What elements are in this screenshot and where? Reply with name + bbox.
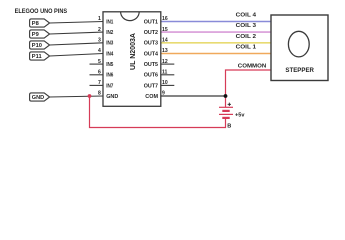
wire +5v net: junction up and right to stepper COMMON: [226, 70, 272, 96]
svg-text:OUT3: OUT3: [144, 41, 159, 47]
pin stub 6: [90, 74, 104, 76]
svg-text:IN1: IN1: [106, 19, 114, 25]
wire battery - to GND net: [90, 96, 226, 128]
wire OUT3 (pin 14) to stepper COIL 2: [161, 42, 271, 44]
svg-text:IN3: IN3: [106, 41, 114, 47]
svg-text:15: 15: [162, 27, 168, 33]
pin stub 11: [161, 74, 175, 76]
svg-text:14: 14: [162, 38, 168, 44]
net tag P9: [30, 30, 50, 38]
svg-text:GND: GND: [106, 94, 118, 100]
wire GND to pin 8: [50, 96, 103, 97]
svg-text:IN6: IN6: [106, 73, 114, 79]
wire junction down to battery +: [225, 96, 227, 107]
battery plate long 2: [219, 113, 233, 115]
svg-text:8: 8: [98, 91, 101, 97]
battery B +5v plate long top: [219, 106, 233, 108]
pin stub 10: [161, 84, 175, 86]
svg-text:IN5: IN5: [106, 62, 114, 68]
svg-text:1: 1: [98, 16, 101, 22]
svg-text:13: 13: [162, 48, 168, 54]
svg-text:COM: COM: [145, 94, 158, 100]
wire OUT4 (pin 13) to stepper COIL 1: [161, 53, 271, 55]
wire P10 to pin 3: [50, 43, 103, 45]
svg-text:10: 10: [162, 80, 168, 86]
svg-text:16: 16: [162, 16, 168, 22]
svg-text:7: 7: [98, 80, 101, 86]
net tag GND: [30, 93, 50, 101]
pin stub 12: [161, 63, 175, 65]
svg-text:IN4: IN4: [106, 51, 114, 57]
svg-text:P8: P8: [32, 21, 39, 27]
op-amp driver IC U1 ULN2003A body: [103, 12, 161, 107]
pin stub 5: [90, 63, 104, 65]
net tag P8: [30, 19, 50, 27]
svg-text:OUT2: OUT2: [144, 30, 158, 36]
svg-text:12: 12: [162, 59, 168, 65]
battery short plate 1: [222, 110, 229, 112]
wire OUT1 (pin 16) to stepper COIL 4: [161, 21, 271, 23]
stepper motor M1 body: [271, 15, 328, 81]
svg-text:11: 11: [162, 70, 168, 76]
svg-text:IN2: IN2: [106, 30, 113, 36]
wire COM (pin 9) to junction: [161, 95, 226, 97]
IC top notch: [121, 12, 140, 21]
svg-text:IN7: IN7: [106, 83, 113, 89]
svg-text:UL N2003A: UL N2003A: [130, 33, 137, 70]
svg-text:GND: GND: [32, 95, 44, 101]
svg-text:P10: P10: [32, 43, 42, 49]
wire P8 to pin 1: [50, 22, 103, 24]
svg-text:STEPPER: STEPPER: [285, 67, 314, 74]
stepper rotor circle: [288, 31, 309, 57]
svg-text:OUT7: OUT7: [144, 83, 158, 89]
svg-text:4: 4: [98, 48, 101, 54]
svg-text:2: 2: [98, 27, 101, 33]
svg-text:ELEGOO UNO PINS: ELEGOO UNO PINS: [15, 8, 68, 15]
svg-text:COIL 3: COIL 3: [236, 23, 257, 29]
junction dot at COM/+5v node: [224, 94, 228, 98]
svg-text:COIL 2: COIL 2: [236, 34, 257, 40]
battery + mark: [228, 103, 231, 106]
svg-text:OUT5: OUT5: [144, 62, 159, 68]
svg-text:P11: P11: [32, 54, 42, 60]
net tag P10: [30, 41, 50, 49]
svg-text:P9: P9: [32, 32, 39, 38]
svg-text:5: 5: [98, 59, 101, 65]
svg-text:B: B: [227, 124, 231, 130]
wire OUT2 (pin 15) to stepper COIL 3: [161, 31, 271, 33]
svg-text:OUT6: OUT6: [144, 73, 159, 79]
svg-text:6: 6: [98, 70, 101, 76]
svg-text:COIL 4: COIL 4: [236, 13, 257, 19]
svg-text:COMMON: COMMON: [238, 63, 267, 69]
wire P9 to pin 2: [50, 32, 103, 34]
battery short plate 2: [222, 117, 229, 119]
pin stub 7: [90, 84, 104, 86]
svg-text:COIL 1: COIL 1: [236, 45, 257, 51]
svg-text:OUT4: OUT4: [144, 51, 159, 57]
svg-text:OUT1: OUT1: [144, 19, 159, 25]
junction dot on GND wire: [88, 94, 92, 98]
svg-text:9: 9: [162, 91, 165, 97]
net tag P11: [30, 52, 50, 60]
svg-text:3: 3: [98, 38, 101, 44]
svg-text:+5v: +5v: [235, 113, 245, 119]
wire P11 to pin 4: [50, 54, 103, 57]
